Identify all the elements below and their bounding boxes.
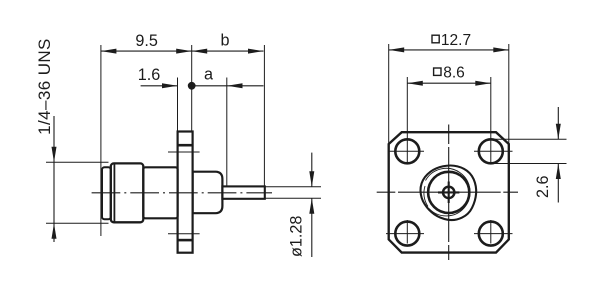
label square 12.7 symbol xyxy=(432,35,439,43)
hole bottom-left v centerline xyxy=(406,220,408,244)
dim line o1.28 lower xyxy=(311,198,313,257)
thread crest line top xyxy=(46,161,109,163)
dim 1.6 extension line (flange left face) xyxy=(177,78,179,133)
dim line 8.6 xyxy=(407,82,491,84)
dim line 2.6 upper xyxy=(557,107,559,139)
arrow 12.7 right xyxy=(493,47,509,52)
svg-text:9.5: 9.5 xyxy=(135,32,158,50)
dim line 9.5 / b xyxy=(101,50,264,52)
contact pin xyxy=(222,186,264,198)
coupling nut xyxy=(111,163,144,222)
svg-text:ø1.28: ø1.28 xyxy=(288,216,306,257)
cylinder body xyxy=(143,167,177,218)
horizontal centerline front view xyxy=(377,191,518,193)
arrow thread top xyxy=(52,147,57,163)
reference dot on flange face xyxy=(188,82,196,90)
centerline (horizontal axis of connector) xyxy=(92,192,272,194)
flange hole centerline bottom xyxy=(168,233,200,235)
flange chamfer line top xyxy=(178,144,193,147)
thread dim line 1/4-36 UNS xyxy=(53,116,55,242)
center contact cross v xyxy=(448,182,450,204)
dim line 12.7 xyxy=(389,49,509,51)
hole bottom-right v centerline xyxy=(490,220,492,244)
arrow o1.28 bottom xyxy=(309,198,314,214)
flange square with chamfered corners xyxy=(389,132,509,252)
dim a extension line (body end) xyxy=(226,78,228,187)
dim 12.7 extension line left xyxy=(388,44,390,144)
connector main circle xyxy=(428,172,469,213)
pin dia extension line top xyxy=(265,186,321,188)
dim line 2.6 lower xyxy=(557,164,559,203)
svg-text:1.6: 1.6 xyxy=(138,66,161,84)
svg-text:a: a xyxy=(204,66,213,84)
arrow 9.5 left xyxy=(101,49,117,54)
connector thin ring arc upper xyxy=(426,168,471,216)
svg-text:1/4–36 UNS: 1/4–36 UNS xyxy=(35,38,54,135)
dim line 1.6 leader xyxy=(141,85,178,87)
nut chamfer line xyxy=(113,164,115,222)
vertical centerline front view xyxy=(448,125,450,261)
hole bottom-right h centerline xyxy=(474,233,513,235)
arrow o1.28 top xyxy=(309,171,314,187)
arrow 12.7 left xyxy=(389,47,405,52)
hole bottom-left xyxy=(395,222,419,246)
label square 8.6 symbol xyxy=(434,68,441,75)
arrow 1.6 xyxy=(162,83,178,88)
hole top-left xyxy=(395,139,419,163)
threaded barrel xyxy=(102,167,111,219)
dim 8.6 extension line left (top-left hole v centerline) xyxy=(406,77,408,164)
rear body xyxy=(193,172,223,214)
dim 12.7 extension line right xyxy=(508,44,510,144)
center contact cross h xyxy=(438,191,459,193)
hole top-right xyxy=(479,139,503,163)
dim 2.6 extension line bottom (hole tangent) xyxy=(491,163,567,165)
connector outer body polygon xyxy=(420,165,476,220)
arrow 8.6 left xyxy=(407,81,423,86)
arrow a xyxy=(227,83,243,88)
arrow 8.6 right xyxy=(475,81,491,86)
thread crest line bottom xyxy=(46,222,109,224)
arrow 2.6 top xyxy=(556,124,561,140)
arrow thread bottom xyxy=(52,223,57,239)
arrow b left xyxy=(192,49,208,54)
dim 2.6 extension line top (hole tangent) xyxy=(491,138,567,140)
arrow b right xyxy=(248,49,264,54)
svg-text:12.7: 12.7 xyxy=(441,32,471,49)
connector thin ring arc lower-left xyxy=(424,186,428,207)
hole bottom-left h centerline xyxy=(386,233,424,235)
svg-text:8.6: 8.6 xyxy=(443,64,465,81)
svg-text:2.6: 2.6 xyxy=(534,176,552,199)
arrow 9.5 right xyxy=(176,49,192,54)
dim line a xyxy=(192,85,264,87)
center contact circle xyxy=(443,187,454,198)
flange chamfer line bottom xyxy=(178,239,193,242)
flange plate xyxy=(178,132,193,253)
flange hole centerline top xyxy=(168,151,200,153)
dim b extension line right xyxy=(263,45,265,186)
dim 9.5 extension line left xyxy=(100,45,102,236)
dim reference extension line (flange face) xyxy=(191,45,193,132)
dim line o1.28 upper xyxy=(311,153,313,187)
dim 8.6 extension line right (top-right hole v centerline) xyxy=(490,77,492,164)
arrow 2.6 bottom xyxy=(556,164,561,180)
svg-text:b: b xyxy=(220,31,229,49)
hole top-left h centerline xyxy=(389,150,424,152)
pin dia extension line bottom xyxy=(265,197,321,199)
hole bottom-right xyxy=(479,222,503,246)
hole top-right h centerline xyxy=(474,150,513,152)
